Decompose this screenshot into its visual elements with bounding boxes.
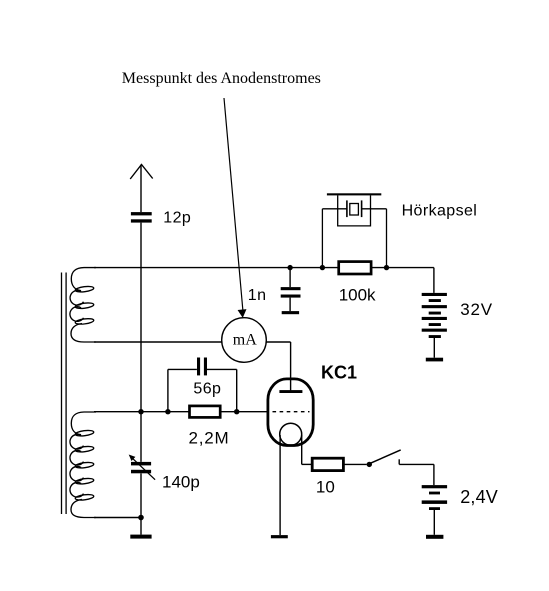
tube KC1 envelope — [268, 379, 313, 446]
ground under 32V — [426, 358, 443, 362]
stub to ground — [140, 518, 142, 535]
56p branch left riser — [167, 369, 169, 411]
leader line from label to meter — [224, 98, 243, 310]
crystal right lead — [362, 208, 387, 210]
junction node 100k left — [320, 265, 325, 270]
capacitor C 1n plates — [281, 287, 301, 298]
svg-text:100k: 100k — [339, 286, 376, 305]
svg-text:12p: 12p — [163, 209, 191, 226]
stub below 32V — [433, 338, 435, 358]
anode plate — [279, 390, 302, 393]
leader arrowhead — [238, 310, 246, 318]
crystal right plate — [361, 200, 363, 217]
wire antenna down to capacitor 12p — [140, 165, 142, 213]
svg-text:140p: 140p — [162, 473, 200, 492]
ground under cathode — [271, 535, 288, 538]
stub below 1n — [289, 298, 291, 312]
wire resistor to switch — [343, 463, 366, 465]
coil L1 (top winding) — [70, 268, 96, 342]
wire: grid rail — [94, 411, 190, 413]
transformer core — [61, 273, 63, 515]
svg-text:Messpunkt des Anodenstromes: Messpunkt des Anodenstromes — [122, 70, 321, 87]
crystal left plate — [346, 200, 348, 217]
piezo crystal square — [350, 204, 359, 216]
wire: bottom rail coil to junction — [94, 517, 141, 519]
wire switch to battery — [399, 463, 434, 465]
junction node bottom — [138, 515, 144, 521]
56p branch right riser — [236, 369, 238, 411]
resistor R 10 — [312, 458, 343, 470]
wire: coil bottom to meter — [94, 341, 222, 343]
antenna symbol — [130, 165, 153, 180]
svg-text:mA: mA — [233, 332, 257, 349]
wire: top rail from coil to right — [94, 267, 339, 269]
svg-text:10: 10 — [316, 477, 335, 496]
switch pivot dot — [367, 462, 372, 467]
crystal left lead — [322, 208, 347, 210]
coil L2 (bottom winding) — [70, 412, 96, 518]
filament circle — [280, 423, 302, 445]
svg-text:1n: 1n — [248, 287, 267, 304]
svg-text:32V: 32V — [460, 300, 493, 319]
battery 32V — [422, 293, 447, 338]
junction node RC left — [165, 409, 170, 414]
wire continuing below 140p to bottom junction — [140, 473, 142, 517]
capacitor 1n stub — [289, 268, 291, 288]
ground under 2,4V — [426, 535, 443, 539]
variable capacitor 140p plates — [131, 462, 151, 473]
svg-text:2,4V: 2,4V — [460, 487, 498, 507]
switch lever — [371, 450, 401, 463]
140p arrowhead — [129, 455, 136, 462]
svg-text:Hörkapsel: Hörkapsel — [402, 203, 478, 220]
wire down to 32V battery — [433, 268, 435, 293]
junction node RC right — [234, 409, 239, 414]
earpiece Hoerkapsel top bar — [327, 193, 381, 195]
wire to 10 resistor — [302, 463, 313, 465]
earpiece housing box — [338, 195, 371, 226]
left branch wire to earpiece — [321, 209, 323, 268]
stub below 2,4V — [433, 510, 435, 535]
resistor R 2,2M — [190, 406, 221, 418]
battery 2,4V — [422, 485, 447, 510]
svg-text:KC1: KC1 — [321, 363, 357, 383]
junction node 100k right — [384, 265, 389, 270]
svg-text:56p: 56p — [193, 380, 221, 397]
filament right leg — [301, 435, 303, 464]
filament left leg — [279, 435, 281, 535]
resistor R 100k — [339, 262, 371, 274]
56p branch top wire — [168, 368, 197, 370]
wire from 12p down through crossings to lower junction — [140, 223, 142, 462]
junction node antenna/grid rail — [138, 409, 143, 414]
capacitor C 12p plates — [131, 212, 152, 223]
junction node at 1n — [287, 265, 292, 270]
capacitor C 56p plates — [197, 358, 207, 376]
meter mA — [222, 318, 267, 363]
grid dashed line — [273, 411, 310, 413]
140p arrow line — [132, 458, 155, 480]
ground under 1n — [282, 311, 299, 314]
svg-text:2,2M: 2,2M — [189, 428, 230, 447]
switch contact stub — [398, 459, 400, 464]
ground bottom left — [130, 535, 151, 539]
wire: meter to anode lead — [266, 341, 290, 343]
right branch wire from earpiece — [386, 209, 388, 268]
